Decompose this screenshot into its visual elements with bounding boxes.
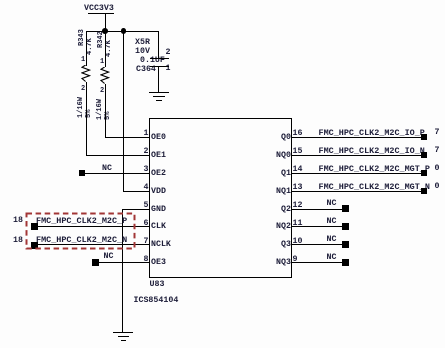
off-page connector square Q0 (421, 134, 428, 141)
node FMC_HPC_CLK2_M2C_MGT_P (319, 165, 430, 173)
pin 1 OE0 (144, 130, 149, 138)
wire cap branch (158, 31, 159, 59)
pin 12 Q2 (293, 202, 303, 210)
NC label pin9 (327, 254, 337, 262)
node FMC_HPC_CLK2_M2C_N (36, 236, 127, 244)
pin 15 NQ0 (293, 148, 303, 156)
part number ICS854104 (134, 297, 179, 305)
pin 16 Q0 (293, 130, 303, 138)
wire Q1 net (291, 173, 421, 174)
pin 6 CLK (144, 220, 149, 228)
pin 10 Q3 (293, 238, 303, 246)
ground at C364 (149, 92, 169, 93)
NC label pin11 (327, 218, 337, 226)
NC label pin12 (327, 200, 337, 208)
no-connect square pin3 (79, 170, 86, 177)
no-connect square pin9 (342, 259, 349, 266)
sheet ref 0 (435, 183, 440, 191)
pin 5 GND (144, 202, 149, 210)
pin 14 Q1 (293, 166, 303, 174)
off-page connector square Q1 (421, 170, 428, 177)
no-connect square pin8 (92, 259, 99, 266)
highlight box (red dashed) (25, 212, 137, 250)
junction dot at VDD branch (121, 28, 127, 34)
wire VDD to pin4 (123, 191, 149, 192)
pin 9 NQ3 (293, 256, 298, 264)
wire NC to pin8 (95, 262, 149, 263)
NC label pin3 (102, 165, 112, 173)
off-page connector square CLK (31, 223, 38, 230)
pin 11 NQ2 (293, 220, 303, 228)
capacitor C364 (135, 39, 150, 47)
wire VCC rail (86, 31, 159, 32)
pin 3 OE2 (144, 166, 149, 174)
node FMC_HPC_CLK2_M2C_IO_P (319, 129, 425, 137)
wire VDD branch vertical (123, 31, 124, 191)
wire VCC3V3 stem (105, 14, 106, 31)
pin 2 OE1 (144, 148, 149, 156)
wire NCLK net (35, 244, 149, 245)
sheet ref 18 (13, 217, 23, 225)
off-page connector square NQ1 (421, 188, 428, 195)
off-page connector square NQ0 (421, 152, 428, 159)
resistor R342 (98, 31, 105, 48)
pin 4 VDD (144, 184, 149, 192)
wire Q0 net (291, 137, 421, 138)
wire pin12 stub (291, 209, 342, 210)
sheet ref 18 (13, 237, 23, 245)
no-connect square pin12 (342, 205, 349, 212)
NC label pin10 (327, 236, 337, 244)
power symbol VCC3V3 (84, 5, 114, 13)
wire pin10 stub (291, 244, 342, 245)
sheet ref 7 (435, 129, 440, 137)
no-connect square pin10 (342, 241, 349, 248)
wire GND stem (122, 209, 123, 334)
sheet ref 0 (435, 165, 440, 173)
wire R342 to pin1 (105, 137, 150, 138)
wire NQ0 net (291, 155, 421, 156)
ground at U83 (113, 332, 133, 333)
node FMC_HPC_CLK2_M2C_MGT_N (319, 183, 430, 191)
junction dot at R342/VCC (102, 28, 108, 34)
wire NC to pin3 (85, 173, 149, 174)
sheet ref 7 (435, 147, 440, 155)
wire cap to ground (158, 67, 159, 93)
wire GND to pin5 (122, 209, 149, 210)
capacitor C364 plates (150, 58, 169, 59)
wire pin9 stub (291, 262, 342, 263)
pin 8 OE3 (144, 256, 149, 264)
resistor R343 (79, 29, 86, 46)
no-connect square pin11 (342, 223, 349, 230)
pin 13 NQ1 (293, 184, 303, 192)
wire NQ1 net (291, 191, 421, 192)
pin 7 NCLK (144, 238, 149, 246)
wire CLK net (35, 226, 149, 227)
node FMC_HPC_CLK2_M2C_P (36, 217, 127, 225)
wire pin11 stub (291, 226, 342, 227)
off-page connector square NCLK (31, 242, 38, 249)
node FMC_HPC_CLK2_M2C_IO_N (319, 147, 425, 155)
op IC U83 box (149, 118, 292, 278)
NC label pin8 (104, 253, 114, 261)
wire R343 to pin2 (86, 155, 150, 156)
